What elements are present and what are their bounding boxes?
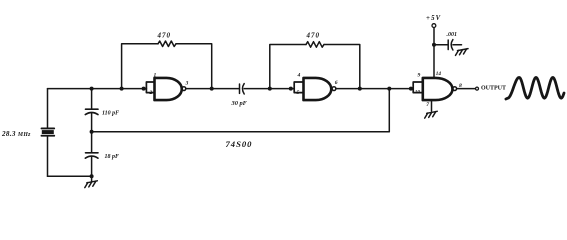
resistor R2 470 feedback loop gate 2 [270, 45, 306, 89]
terminal: output [476, 87, 479, 90]
node: feedback wire junction [387, 87, 391, 91]
svg-text:30 pF: 30 pF [231, 100, 248, 107]
wire: capacitor branch vertical [91, 89, 93, 177]
wire: long feedback from cap divider to gate2 output [92, 89, 390, 132]
svg-text:74S00: 74S00 [226, 139, 253, 149]
svg-text:7: 7 [426, 102, 429, 108]
node: R2 left junction [268, 87, 272, 91]
wire: cap to ground [453, 44, 462, 46]
capacitor C2 18pF [85, 153, 98, 158]
resistor R1 470 feedback loop gate 1 [122, 44, 158, 89]
svg-text:470: 470 [157, 32, 172, 40]
capacitor C3 30pF coupling [240, 84, 245, 94]
wire: pin 7 to ground [431, 100, 433, 111]
svg-text:6: 6 [335, 80, 338, 86]
wire: cap to gate 2 input [244, 88, 294, 90]
ground: bottom left [85, 176, 98, 187]
wire: pin 14 to +5V [433, 28, 435, 78]
svg-text:.001: .001 [447, 32, 458, 38]
svg-text:2: 2 [149, 90, 153, 96]
svg-text:18 pF: 18 pF [105, 154, 120, 160]
svg-text:14: 14 [436, 71, 442, 77]
ground: pin 7 [425, 111, 438, 118]
wire: gate1 output to coupling cap [186, 88, 240, 90]
node: R1 left junction [120, 87, 124, 91]
svg-text:110 pF: 110 pF [102, 110, 119, 116]
svg-text:3: 3 [185, 81, 189, 87]
svg-text:1: 1 [154, 72, 157, 78]
svg-text:OUTPUT: OUTPUT [481, 86, 506, 92]
svg-text:28.3 MHz: 28.3 MHz [1, 130, 31, 138]
svg-text:+5V: +5V [426, 15, 441, 22]
wire: gate2 output to gate3 input [336, 88, 413, 90]
node: R2 right junction [358, 87, 362, 91]
terminal +5V [432, 24, 436, 28]
node: R1 right junction [210, 87, 214, 91]
svg-text:5: 5 [297, 90, 300, 96]
nand gate U1c 74S00 pins 9,10,8 [413, 82, 423, 93]
node: gate 2 input junction [289, 87, 293, 91]
svg-text:4: 4 [297, 72, 301, 78]
svg-text:10: 10 [415, 90, 421, 96]
node: junction caps top rail [90, 87, 94, 91]
ground: bypass cap [456, 49, 469, 56]
wire: main input rail from left corner to gate 1 input [48, 88, 147, 90]
node: junction between caps [90, 130, 94, 134]
nand gate U1a 74S00 pins 1,2,3 [146, 82, 154, 93]
capacitor C4 .001 bypass [448, 40, 453, 50]
nand gate U1b 74S00 pins 4,5,6 [294, 82, 303, 93]
wire: bottom left horizontal [48, 175, 92, 177]
crystal Y1 28.3 MHz [42, 128, 55, 135]
node: bypass cap junction [432, 43, 436, 47]
waveform: output sine [506, 78, 564, 100]
wire: junction to bypass cap [434, 44, 448, 46]
wire: left vertical (crystal branch) [47, 89, 49, 177]
svg-text:9: 9 [418, 72, 421, 78]
node: gate 1 input junction [142, 87, 146, 91]
svg-text:470: 470 [306, 32, 321, 40]
capacitor C1 110pF [85, 109, 98, 114]
node: junction bottom [90, 174, 94, 178]
node: gate 3 input junction [409, 87, 413, 91]
wire: gate3 output to terminal [457, 88, 476, 90]
